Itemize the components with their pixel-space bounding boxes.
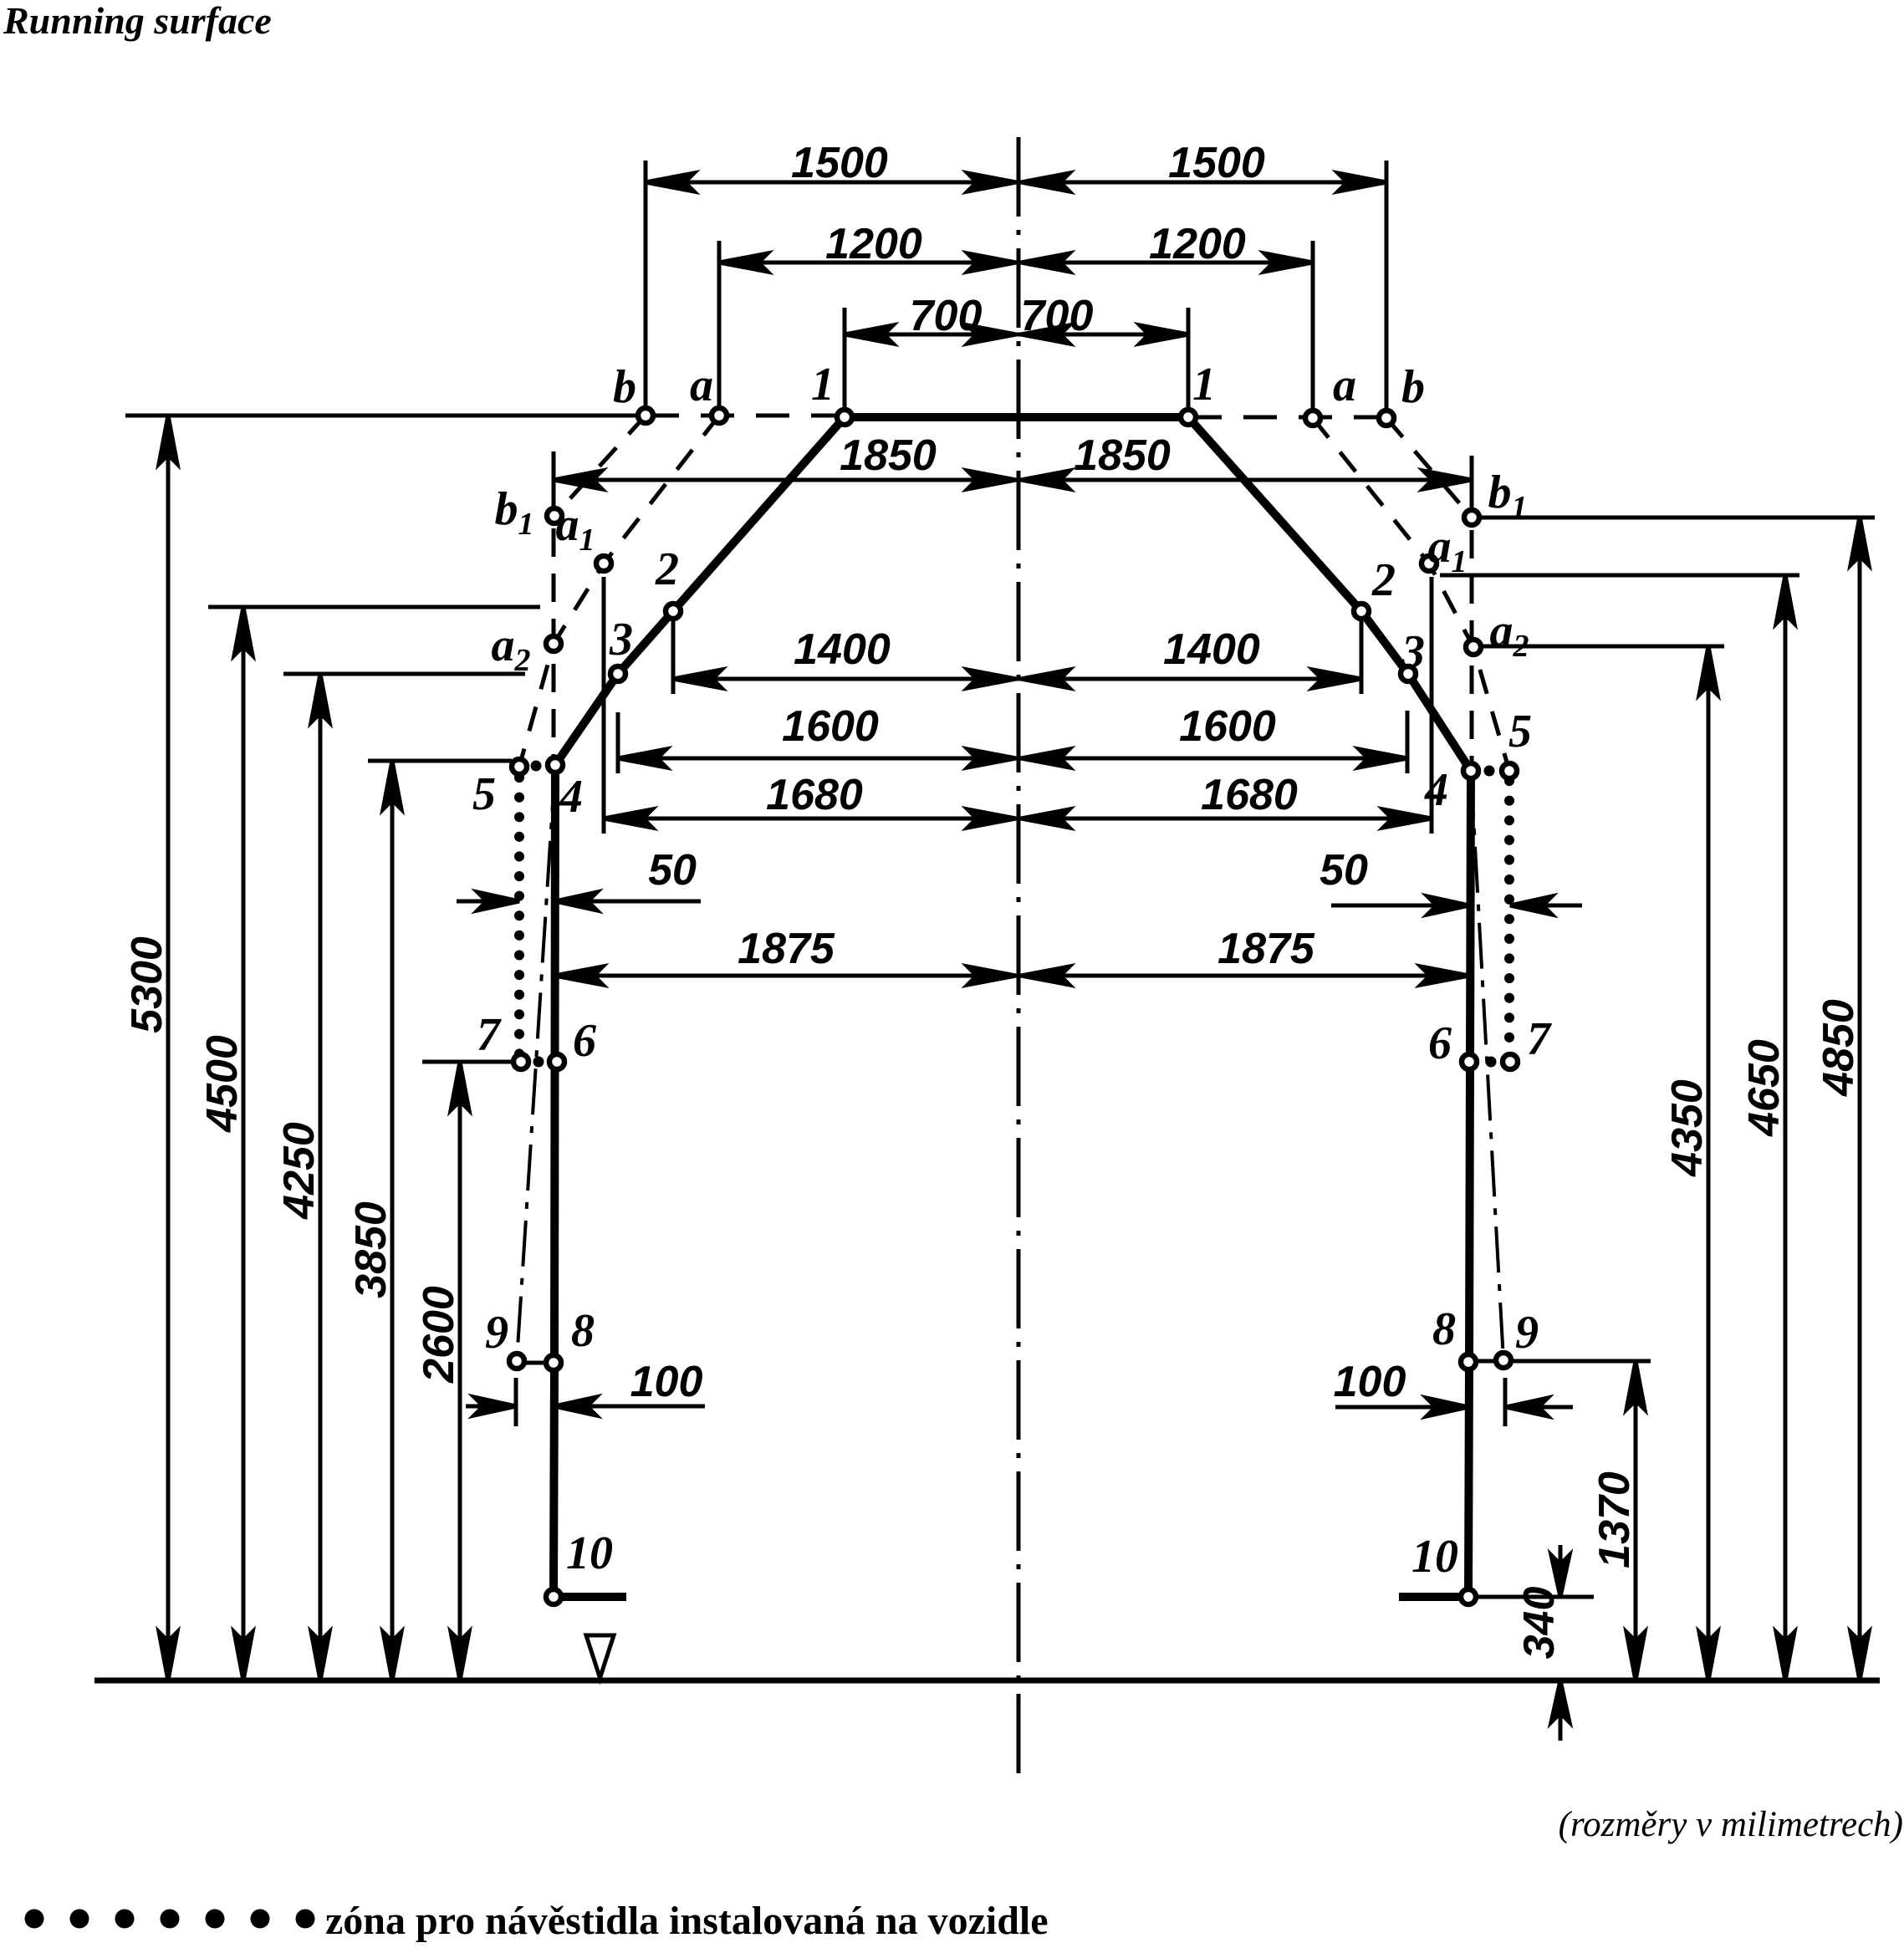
svg-text:1680: 1680	[766, 771, 863, 819]
dimension 2600 line	[458, 1062, 462, 1680]
extension line height 4250 left	[283, 672, 525, 676]
svg-text:3: 3	[609, 614, 633, 665]
extension line level of point 10 right	[1475, 1595, 1594, 1599]
legend dotted zone sample	[25, 1910, 44, 1929]
point 8 right	[1461, 1354, 1476, 1369]
svg-text:Running surface: Running surface	[3, 0, 272, 42]
svg-text:4850: 4850	[1815, 999, 1863, 1097]
top auxiliary line to point b left	[125, 414, 646, 418]
svg-text:a: a	[690, 359, 713, 411]
point 5 left	[512, 759, 527, 774]
point a2 left	[546, 636, 561, 651]
svg-text:8: 8	[571, 1305, 595, 1357]
svg-text:4250: 4250	[275, 1122, 324, 1220]
point a1 left	[596, 556, 611, 571]
dotted signal-zone line right 5-7	[1504, 781, 1514, 1055]
point 2 left	[666, 604, 681, 619]
svg-text:3: 3	[1401, 626, 1425, 678]
svg-text:b: b	[613, 361, 636, 413]
point 6 left	[549, 1054, 564, 1069]
extension line 1850 right	[1470, 456, 1474, 513]
point b left	[638, 408, 653, 423]
point a left	[712, 408, 727, 423]
point 7 right	[1503, 1054, 1518, 1069]
dashed vertical b1-a2 line left	[552, 483, 556, 762]
svg-text:5: 5	[1508, 706, 1532, 757]
dimension 340 arrows	[1559, 1545, 1563, 1597]
svg-text:340: 340	[1515, 1587, 1564, 1660]
extension line 1400 right	[1360, 620, 1364, 694]
svg-text:1200: 1200	[825, 220, 922, 268]
profile left vertical 4-6-8-10	[554, 765, 555, 1597]
svg-text:1875: 1875	[738, 925, 835, 973]
dimension 1400 line	[673, 677, 1361, 681]
extension tick below 9 left	[514, 1378, 518, 1426]
point 10 left	[546, 1589, 561, 1604]
svg-text:7: 7	[477, 1009, 502, 1061]
svg-text:9: 9	[1515, 1307, 1539, 1359]
point 10 right	[1461, 1589, 1476, 1604]
svg-text:8: 8	[1432, 1303, 1456, 1355]
extension line a left top	[717, 241, 722, 410]
dimension 1680 line	[604, 817, 1432, 821]
point 5 right	[1502, 763, 1517, 778]
point 8 left	[546, 1355, 561, 1370]
dotted signal-zone line left 5-7	[514, 778, 524, 1055]
svg-text:100: 100	[630, 1358, 703, 1406]
extension line 1 left top	[843, 308, 847, 411]
dashed diagonal a-a1-a2-5 right	[1313, 418, 1509, 771]
svg-text:10: 10	[566, 1527, 613, 1579]
dimension 1200 line	[719, 261, 1313, 265]
thin dash-dot line 4-9 right	[1471, 771, 1503, 1360]
extension line 1600 left	[616, 712, 620, 773]
svg-text:2600: 2600	[415, 1286, 463, 1384]
point 3 left	[610, 666, 625, 681]
svg-text:a: a	[1333, 359, 1356, 411]
profile top line 1-1	[845, 413, 1188, 421]
point b1 right	[1464, 510, 1479, 525]
extension line height 2600 left	[422, 1060, 513, 1064]
dimension 4500 line	[242, 607, 246, 1680]
dimension 4850 line	[1858, 517, 1862, 1680]
svg-text:6: 6	[1428, 1017, 1452, 1069]
point 4 left	[548, 757, 563, 773]
dimension 700 line	[845, 333, 1188, 337]
dashed diagonal a-a1-a2-5 left	[519, 416, 719, 767]
dimension 1370 line	[1634, 1361, 1638, 1680]
point 9 right	[1496, 1353, 1511, 1368]
svg-text:b: b	[1401, 361, 1425, 413]
point 2 right	[1354, 604, 1369, 619]
point 7 left	[513, 1054, 528, 1069]
connector 8-9 right	[1473, 1359, 1499, 1364]
svg-text:4350: 4350	[1663, 1079, 1712, 1177]
connector 8-9 left	[521, 1361, 549, 1365]
extension line 1680 left	[602, 577, 606, 834]
svg-text:1: 1	[811, 359, 835, 410]
point 6 right	[1462, 1054, 1477, 1069]
svg-text:1680: 1680	[1201, 771, 1298, 819]
svg-text:1200: 1200	[1149, 220, 1246, 268]
dimension 4250 line	[319, 674, 323, 1680]
dimension 3850 line	[390, 761, 395, 1680]
dimension 100 right	[1335, 1405, 1468, 1410]
svg-text:1: 1	[1192, 359, 1216, 410]
dimension 1875 line	[554, 974, 1469, 978]
svg-text:1600: 1600	[782, 702, 879, 751]
svg-text:50: 50	[648, 846, 697, 895]
fat dot between 4 and 5 left	[531, 761, 542, 772]
point 9 left	[509, 1354, 524, 1369]
svg-text:100: 100	[1334, 1358, 1406, 1406]
dashed diagonal b-b1 left	[554, 416, 646, 516]
svg-text:1850: 1850	[840, 431, 937, 480]
svg-text:5: 5	[472, 768, 496, 820]
svg-text:4500: 4500	[198, 1035, 247, 1133]
point 1 left	[837, 410, 852, 425]
svg-text:6: 6	[573, 1015, 596, 1067]
dashed line b-a-1 left	[646, 414, 845, 418]
extension line height 3850 left	[368, 759, 512, 763]
svg-text:3850: 3850	[347, 1201, 396, 1298]
dimension 1500 line	[646, 181, 1386, 185]
point a2 right	[1466, 640, 1481, 655]
point 3 right	[1401, 666, 1416, 681]
extension line 1850 left	[552, 451, 556, 512]
dimension 5300 line	[166, 416, 171, 1680]
extension line 1 right top	[1187, 308, 1191, 411]
extension line b right top	[1385, 161, 1389, 411]
svg-text:9: 9	[485, 1307, 508, 1359]
thin dash-dot line 4-9 left	[517, 765, 555, 1361]
extension line b left top	[644, 161, 648, 410]
dimension 4650 line	[1784, 575, 1788, 1680]
svg-text:7: 7	[1527, 1013, 1552, 1065]
svg-text:2: 2	[1371, 554, 1396, 606]
point a right	[1305, 410, 1320, 426]
point 1 right	[1181, 410, 1196, 425]
svg-text:4650: 4650	[1740, 1039, 1789, 1137]
extension line height 1370 right	[1512, 1359, 1651, 1364]
svg-text:700: 700	[910, 292, 983, 340]
svg-text:10: 10	[1411, 1531, 1458, 1583]
svg-text:1500: 1500	[1168, 139, 1265, 187]
extension line 1600 right	[1406, 711, 1410, 773]
svg-text:(rozměry v milimetrech): (rozměry v milimetrech)	[1559, 1805, 1903, 1844]
profile foot bar at point 10 left	[554, 1593, 626, 1601]
extension line a right top	[1311, 241, 1315, 411]
ground line (running surface)	[94, 1678, 1880, 1684]
extension line 1400 left	[671, 620, 676, 694]
fat dot between 4 and 5 right	[1484, 766, 1495, 777]
extension line height 4350 right	[1482, 645, 1724, 649]
profile left diagonal 1-2-3-4	[555, 417, 845, 765]
dashed line 1-a-b right	[1188, 416, 1386, 420]
svg-text:4: 4	[1424, 764, 1448, 816]
svg-text:1850: 1850	[1074, 431, 1171, 480]
dimension 1600 line	[618, 757, 1407, 761]
svg-text:1875: 1875	[1217, 925, 1315, 973]
profile right vertical 4-6-8-10	[1468, 771, 1471, 1597]
dimension 50 left	[457, 900, 519, 904]
centre axis line	[1017, 137, 1021, 1781]
level triangle symbol on running surface	[586, 1635, 614, 1678]
svg-text:1600: 1600	[1179, 702, 1276, 751]
point b right	[1379, 410, 1394, 426]
svg-text:1400: 1400	[1163, 625, 1260, 674]
fat dot between 6 and 7 left	[533, 1057, 544, 1068]
dashed vertical b1-a2 line right	[1470, 485, 1474, 767]
dimension 100 left	[466, 1405, 516, 1409]
svg-text:1400: 1400	[794, 625, 891, 674]
svg-text:4: 4	[559, 771, 583, 823]
svg-text:2: 2	[655, 543, 679, 595]
profile right diagonal 1-2-3-4	[1188, 417, 1471, 771]
point 4 right	[1463, 763, 1478, 778]
svg-text:5300: 5300	[123, 936, 171, 1033]
svg-text:1370: 1370	[1590, 1471, 1639, 1568]
point b1 left	[547, 508, 562, 523]
dimension 1850 line	[554, 478, 1472, 482]
extension line height 4650 right	[1440, 574, 1799, 578]
fat dot between 6 and 7 right	[1486, 1057, 1497, 1068]
extension line height 4500 left	[208, 605, 540, 609]
svg-text:zóna pro návěstidla instalovan: zóna pro návěstidla instalovaná na vozid…	[325, 1899, 1049, 1943]
profile foot bar at point 10 right	[1399, 1593, 1468, 1601]
extension line 1680 right	[1430, 577, 1434, 834]
dimension 4350 line	[1707, 646, 1711, 1680]
extension tick below 9 right	[1503, 1378, 1508, 1426]
dimension 50 right	[1331, 904, 1469, 908]
svg-text:50: 50	[1320, 846, 1368, 895]
extension line height 4850 right	[1480, 516, 1875, 520]
point a1 right	[1422, 556, 1437, 571]
dashed diagonal b-b1 right	[1386, 418, 1472, 518]
svg-text:1500: 1500	[791, 139, 888, 187]
svg-text:700: 700	[1021, 292, 1094, 340]
